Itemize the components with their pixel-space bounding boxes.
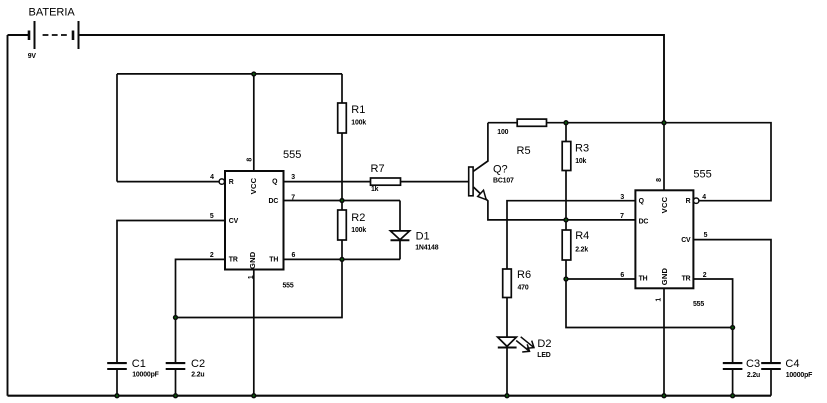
wire C4 bottom to rail bbox=[770, 369, 772, 396]
svg-text:R: R bbox=[229, 179, 234, 186]
wire VCC1 net horizontal y73.5 bbox=[117, 73, 342, 75]
capacitor C3 plates bbox=[723, 363, 743, 369]
svg-text:VCC: VCC bbox=[660, 196, 669, 213]
svg-text:1: 1 bbox=[656, 298, 663, 302]
junction node C3 rail bbox=[731, 394, 735, 398]
wire CV pin5 IC1 to C1 bbox=[117, 221, 225, 364]
wire top rail from battery plus to VCC2 column bbox=[79, 35, 665, 123]
svg-text:6: 6 bbox=[620, 272, 624, 279]
wire reset pin4 IC1 bbox=[117, 181, 219, 183]
battery plate short negative left bbox=[28, 31, 31, 41]
svg-text:555: 555 bbox=[283, 283, 294, 290]
wire collector to top net bbox=[473, 123, 488, 172]
svg-text:VCC: VCC bbox=[249, 177, 258, 194]
svg-text:10000pF: 10000pF bbox=[132, 372, 159, 379]
svg-text:TR: TR bbox=[229, 257, 238, 264]
resistor R4 body bbox=[562, 230, 571, 260]
junction node VCC1 dot bbox=[252, 72, 256, 76]
svg-text:7: 7 bbox=[291, 194, 295, 201]
junction node LED rail bbox=[505, 394, 509, 398]
svg-text:GND: GND bbox=[248, 251, 257, 269]
svg-text:BC107: BC107 bbox=[493, 178, 514, 185]
svg-text:R6: R6 bbox=[517, 269, 531, 281]
svg-text:4: 4 bbox=[210, 174, 214, 181]
pin 4 inversion bubble IC1 bbox=[219, 179, 224, 184]
svg-text:4: 4 bbox=[702, 194, 706, 201]
battery dashed middle wire bbox=[43, 34, 67, 36]
junction node TR1 C2 bbox=[174, 316, 178, 320]
svg-text:GND: GND bbox=[660, 267, 669, 285]
svg-text:100: 100 bbox=[497, 129, 508, 136]
capacitor C1 plates bbox=[107, 363, 127, 369]
svg-text:R: R bbox=[686, 198, 691, 205]
wire emitter to DC2 line bbox=[473, 187, 635, 220]
junction node pin7 R1 R2 D1 bbox=[340, 199, 344, 203]
op-amp U1 555 IC box bbox=[225, 171, 284, 270]
svg-text:DC: DC bbox=[269, 198, 279, 205]
svg-text:LED: LED bbox=[537, 352, 551, 359]
svg-text:C2: C2 bbox=[191, 358, 205, 370]
wire left rail from battery minus down to bottom rail bbox=[8, 34, 30, 36]
wire R4 column bbox=[565, 220, 567, 279]
wire TR2 pin2 to C3 column bbox=[693, 279, 732, 363]
svg-text:CV: CV bbox=[681, 237, 691, 244]
LED D2 triangle and bar bbox=[498, 337, 517, 347]
svg-text:1: 1 bbox=[248, 275, 255, 279]
svg-text:TH: TH bbox=[269, 257, 278, 264]
svg-text:8: 8 bbox=[247, 158, 254, 162]
svg-text:R2: R2 bbox=[351, 212, 365, 224]
junction node R4 TH2 bbox=[564, 277, 568, 281]
svg-text:R5: R5 bbox=[517, 145, 531, 157]
wire R3 column bbox=[565, 123, 567, 220]
resistor R7 body bbox=[371, 178, 401, 185]
wire GND pin1 stub IC1 to rail bbox=[253, 270, 255, 396]
wire C3 bottom to rail bbox=[732, 369, 734, 396]
wire bottom ground rail bbox=[8, 395, 772, 397]
svg-text:C3: C3 bbox=[746, 358, 760, 370]
svg-text:C1: C1 bbox=[132, 358, 146, 370]
wire TR pin2 IC1 to C2 column bbox=[176, 259, 226, 363]
svg-text:10000pF: 10000pF bbox=[786, 372, 813, 379]
diode D1 triangle and bar bbox=[390, 231, 409, 240]
junction node emitter DC2 bbox=[564, 218, 568, 222]
wire TH2 down and across to C3 column bbox=[566, 279, 733, 328]
svg-text:7: 7 bbox=[620, 213, 624, 220]
svg-text:Q: Q bbox=[272, 179, 278, 186]
svg-text:R4: R4 bbox=[575, 230, 589, 242]
wire R1 R2 column x342 bbox=[176, 74, 343, 318]
junction node GND1 rail bbox=[252, 394, 256, 398]
svg-text:CV: CV bbox=[229, 218, 239, 225]
wire CV2 pin5 to C4 bbox=[693, 240, 771, 364]
wire Q2 pin3 to R6 LED column bbox=[507, 201, 635, 338]
svg-text:8: 8 bbox=[656, 178, 663, 182]
svg-text:100k: 100k bbox=[351, 227, 366, 234]
svg-text:2: 2 bbox=[703, 272, 707, 279]
junction node VCC2 column bbox=[662, 121, 666, 125]
battery B1 BATERIA 9V bbox=[29, 21, 79, 49]
svg-text:555: 555 bbox=[283, 149, 301, 161]
svg-text:1k: 1k bbox=[371, 186, 379, 193]
battery plate tall positive right bbox=[78, 21, 80, 49]
svg-text:R3: R3 bbox=[575, 142, 589, 154]
resistor R5 body bbox=[517, 119, 546, 126]
svg-text:470: 470 bbox=[518, 285, 529, 292]
svg-text:Q?: Q? bbox=[493, 164, 508, 176]
svg-text:2: 2 bbox=[210, 252, 214, 259]
svg-text:10k: 10k bbox=[575, 158, 586, 165]
transistor Q1 base bar bbox=[469, 167, 473, 196]
resistor R2 body bbox=[338, 210, 347, 240]
junction node C2 rail bbox=[174, 394, 178, 398]
svg-text:5: 5 bbox=[210, 213, 214, 220]
junction node GND2 rail bbox=[662, 394, 666, 398]
svg-text:3: 3 bbox=[620, 194, 624, 201]
svg-text:2.2k: 2.2k bbox=[575, 247, 588, 254]
svg-text:555: 555 bbox=[693, 301, 704, 308]
wire TH pin6 IC1 to D1 bottom bbox=[284, 258, 401, 260]
capacitor C4 plates bbox=[761, 363, 781, 369]
resistor R1 body bbox=[338, 103, 347, 133]
svg-text:3: 3 bbox=[291, 174, 295, 181]
wire GND pin1 stub IC2 to rail bbox=[663, 288, 665, 395]
svg-text:D2: D2 bbox=[537, 338, 551, 350]
svg-text:555: 555 bbox=[693, 169, 711, 181]
pin 4 inversion bubble IC2 bbox=[694, 198, 699, 203]
wire D1 branch verticals bbox=[399, 201, 401, 231]
capacitor C2 plates bbox=[166, 363, 186, 369]
battery plate tall positive left bbox=[34, 21, 36, 49]
svg-text:6: 6 bbox=[292, 252, 296, 259]
svg-text:TR: TR bbox=[682, 276, 691, 283]
wire VCC pin8 stub IC2 bbox=[663, 123, 665, 191]
svg-text:BATERIA: BATERIA bbox=[29, 7, 76, 19]
svg-text:R7: R7 bbox=[371, 163, 385, 175]
LED D2 emission arrows bbox=[516, 337, 534, 352]
svg-text:C4: C4 bbox=[785, 358, 799, 370]
wire DC pin7 IC1 to D1 top bbox=[284, 200, 401, 202]
svg-text:TH: TH bbox=[639, 276, 648, 283]
svg-text:D1: D1 bbox=[416, 231, 430, 243]
wire Q pin3 IC1 to transistor base bbox=[284, 181, 469, 183]
resistor R3 body bbox=[562, 142, 571, 171]
wire TH2 pin6 wire bbox=[566, 278, 635, 280]
transistor Q1 emitter arrowhead bbox=[478, 190, 487, 200]
junction node C1 rail bbox=[115, 394, 119, 398]
wire C1 bottom to rail bbox=[116, 369, 118, 396]
wire LED bottom to rail bbox=[506, 348, 508, 396]
svg-text:2.2u: 2.2u bbox=[191, 372, 204, 379]
battery plate short negative right bbox=[72, 31, 75, 41]
svg-text:2.2u: 2.2u bbox=[747, 372, 760, 379]
svg-text:1N4148: 1N4148 bbox=[415, 245, 439, 252]
svg-text:5: 5 bbox=[704, 232, 708, 239]
wire pin4 loop vertical x117 bbox=[116, 74, 118, 182]
resistor R6 body bbox=[503, 269, 512, 298]
op-amp U2 555 IC box bbox=[635, 190, 693, 288]
junction node TR2 C3 wire bbox=[731, 326, 735, 330]
junction node pin6 R2 D1 bbox=[340, 258, 344, 262]
svg-text:Q: Q bbox=[639, 198, 645, 205]
svg-text:100k: 100k bbox=[351, 119, 366, 126]
wire R5 R3 VCC2 top net y123.5 bbox=[488, 123, 771, 201]
svg-text:9V: 9V bbox=[28, 53, 37, 60]
junction node R3 top bbox=[564, 121, 568, 125]
svg-text:R1: R1 bbox=[351, 104, 365, 116]
wire VCC pin8 stub IC1 bbox=[253, 74, 255, 171]
wire C2 bottom to rail bbox=[175, 369, 177, 396]
svg-text:DC: DC bbox=[639, 219, 649, 226]
